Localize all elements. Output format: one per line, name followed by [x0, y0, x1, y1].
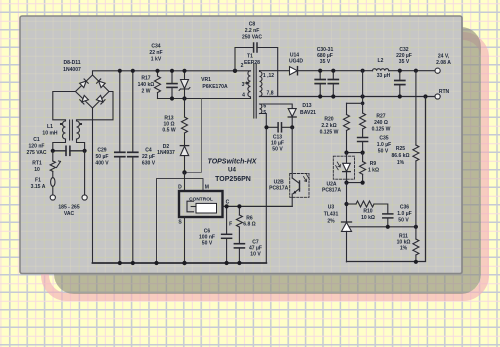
svg-text:10 mH: 10 mH: [42, 131, 58, 137]
svg-text:33 µH: 33 µH: [377, 73, 391, 79]
node: C34 bottom: [170, 96, 174, 100]
wire: L1 right bottom to line: [77, 139, 85, 151]
svg-text:C1: C1: [33, 137, 40, 143]
svg-text:L2: L2: [378, 58, 384, 64]
transformer T1 core: [254, 64, 256, 118]
opto U2B phototransistor: [290, 174, 310, 207]
svg-text:M: M: [205, 185, 209, 191]
svg-text:22 nF: 22 nF: [149, 50, 162, 56]
svg-text:1%: 1%: [397, 160, 405, 166]
inductor L2: [373, 69, 389, 71]
svg-text:86.6 kΩ: 86.6 kΩ: [391, 153, 409, 159]
capacitor C7: [234, 244, 244, 263]
svg-text:1 kΩ: 1 kΩ: [368, 168, 379, 174]
svg-text:3.15 A: 3.15 A: [31, 184, 46, 190]
diode D2: [180, 146, 188, 173]
svg-text:CONTROL: CONTROL: [189, 197, 213, 203]
svg-text:F1: F1: [35, 178, 41, 184]
svg-text:250 VAC: 250 VAC: [242, 35, 262, 41]
wire: 24V output rail: [298, 70, 435, 72]
terminal: AC input right: [82, 195, 87, 200]
svg-text:U4: U4: [228, 166, 236, 173]
svg-text:1 kV: 1 kV: [151, 57, 162, 63]
wire: M pin tie to source: [157, 179, 204, 263]
svg-text:2: 2: [241, 63, 244, 69]
transformer T1 bias winding: [260, 104, 262, 114]
svg-text:F: F: [229, 222, 232, 228]
capacitor C35: [358, 138, 368, 153]
terminal: 24V output: [435, 68, 440, 73]
svg-text:C35: C35: [379, 136, 388, 142]
svg-text:1.0 µF: 1.0 µF: [397, 211, 411, 217]
svg-text:120 nF: 120 nF: [29, 144, 45, 150]
svg-text:50 V: 50 V: [202, 241, 213, 247]
wire: R20 top stub: [347, 102, 363, 104]
inductor L1 common-mode choke: [60, 120, 82, 140]
wire: down to TL431: [346, 183, 348, 222]
node: C6 top: [225, 204, 229, 208]
node: cathode row right: [361, 181, 365, 185]
svg-text:10: 10: [34, 167, 40, 173]
capacitor C1: [53, 146, 85, 155]
wire: fb tap on 24V rail down: [362, 71, 364, 104]
svg-text:50 V: 50 V: [272, 147, 283, 153]
wire: LED anode row: [347, 152, 363, 154]
svg-text:0.125 W: 0.125 W: [320, 130, 339, 136]
svg-text:240 Ω: 240 Ω: [374, 120, 388, 126]
svg-text:50 µF: 50 µF: [95, 154, 108, 160]
svg-text:50 V: 50 V: [378, 149, 389, 155]
svg-text:TL431: TL431: [324, 212, 339, 218]
svg-text:U3: U3: [328, 205, 335, 211]
node: cathode row left: [344, 181, 348, 185]
svg-text:6.8 Ω: 6.8 Ω: [243, 222, 255, 228]
svg-text:C29: C29: [97, 148, 106, 154]
resistor R25: [413, 71, 419, 227]
svg-text:RTN: RTN: [439, 89, 450, 95]
node: rail junctions: [118, 69, 242, 266]
capacitor C34: [167, 71, 177, 99]
svg-text:5: 5: [263, 110, 266, 116]
resistor R6: [236, 206, 242, 243]
svg-text:D13: D13: [302, 103, 311, 109]
svg-text:10 V: 10 V: [250, 252, 261, 258]
wire: TL431 ref row: [349, 226, 416, 228]
node: R6 top: [237, 204, 241, 208]
svg-text:630 V: 630 V: [142, 161, 156, 167]
svg-text:2.2 kΩ: 2.2 kΩ: [321, 123, 336, 129]
svg-text:140 kΩ: 140 kΩ: [138, 82, 155, 88]
svg-text:BAV21: BAV21: [300, 110, 316, 116]
opto U2A LED: [333, 153, 354, 183]
thermistor RT1: [50, 151, 60, 178]
svg-text:TOPSwitch-HX: TOPSwitch-HX: [208, 158, 258, 165]
svg-text:R10: R10: [363, 209, 372, 215]
diode D13: [288, 109, 296, 128]
svg-text:400 V: 400 V: [95, 161, 109, 167]
wire: bridge right AC lead: [77, 92, 114, 122]
node: C13 right / D13 cathode: [290, 125, 294, 129]
zener VR1: [179, 71, 190, 99]
resistor R9: [360, 153, 366, 183]
node: output rail junctions: [318, 69, 428, 99]
svg-text:D8-D11: D8-D11: [63, 60, 80, 66]
svg-text:35 V: 35 V: [399, 59, 410, 65]
svg-text:C: C: [226, 200, 230, 206]
thin wire: drain link to pin 4: [185, 99, 202, 173]
svg-text:RT1: RT1: [32, 161, 42, 167]
wire: LED cathode row: [347, 182, 363, 184]
svg-text:0.5 W: 0.5 W: [162, 128, 175, 134]
wire: fb bottom row to RTN: [347, 97, 426, 262]
node: C13 left: [264, 125, 268, 129]
capacitor C32: [395, 71, 405, 97]
svg-text:24 V,: 24 V,: [438, 54, 450, 60]
node: C1 left junction: [51, 149, 55, 153]
svg-text:R20: R20: [324, 117, 333, 123]
svg-text:C8: C8: [249, 22, 256, 28]
svg-text:1N4937: 1N4937: [157, 150, 175, 156]
transformer T1 secondary winding: [260, 71, 263, 97]
faint grid showing through panel: [21, 17, 461, 273]
svg-text:1.0 µF: 1.0 µF: [377, 142, 391, 148]
wire: C pin to opto: [223, 205, 293, 207]
capacitor C29: [115, 71, 125, 263]
svg-text:10 kΩ: 10 kΩ: [361, 215, 375, 221]
svg-text:C34: C34: [151, 44, 160, 50]
svg-text:T1: T1: [247, 54, 253, 60]
pink drop shadow: [45, 36, 485, 297]
wire: S pin to ground rail: [184, 217, 186, 263]
wire: secondary top to U14: [260, 70, 290, 72]
resistor R10: [347, 201, 388, 214]
wire: bridge negative to bottom rail: [92, 108, 94, 263]
terminal: AC input left: [50, 195, 55, 200]
capacitor C8: [235, 43, 278, 97]
pin 3 arrow: [245, 82, 249, 84]
node: drain: [182, 170, 186, 174]
node: anode row left: [344, 151, 348, 155]
svg-text:2 W: 2 W: [142, 89, 151, 95]
svg-text:R9: R9: [370, 161, 377, 167]
node: divider mid: [414, 225, 418, 229]
wire: primary ground bottom rail: [93, 262, 267, 264]
node: C36 bottom: [386, 225, 390, 229]
svg-text:35 V: 35 V: [320, 59, 331, 65]
schematic panel: [20, 16, 462, 274]
wire: bridge left AC lead: [53, 92, 76, 122]
wire: D13 node down to opto collector: [291, 127, 293, 178]
fuse F1: [51, 178, 55, 195]
capacitor C13: [267, 123, 293, 132]
svg-text:50 V: 50 V: [398, 218, 409, 224]
wire: HV+ top rail: [93, 71, 251, 75]
svg-text:7,8: 7,8: [266, 91, 273, 97]
wire: right AC line down: [84, 151, 86, 195]
transformer T1 primary winding: [248, 71, 251, 99]
wire: L1 left bottom to line: [53, 139, 66, 151]
svg-text:PC817A: PC817A: [322, 188, 341, 194]
node: R11 bottom: [414, 260, 418, 264]
wire: secondary return rail RTN: [260, 96, 435, 98]
svg-text:2.08 A: 2.08 A: [436, 60, 451, 66]
wire: bias pin6 to D13: [260, 104, 293, 109]
capacitor C31: [328, 71, 338, 97]
svg-text:2%: 2%: [327, 219, 335, 225]
op-amp U4 TOPSwitch block: [179, 191, 223, 217]
svg-text:PC817A: PC817A: [269, 186, 288, 192]
svg-text:4: 4: [242, 93, 245, 99]
node: anode row right: [361, 151, 365, 155]
resistor R11: [413, 227, 419, 262]
svg-text:UG4D: UG4D: [289, 59, 303, 65]
svg-text:VR1: VR1: [201, 77, 211, 83]
svg-text:C36: C36: [400, 205, 409, 211]
svg-text:EER28: EER28: [244, 60, 260, 66]
svg-text:22 µF: 22 µF: [142, 154, 155, 160]
svg-text:C4: C4: [145, 148, 152, 154]
node: VR1 bottom: [182, 96, 186, 100]
capacitor C6: [222, 206, 232, 263]
wire: D pin: [184, 172, 186, 191]
gray drop shadow: [54, 27, 481, 294]
svg-text:2.2 nF: 2.2 nF: [245, 28, 260, 34]
wire: clamp bottom row to pin 4: [158, 98, 251, 100]
terminal: RTN: [435, 94, 440, 99]
capacitor C4: [128, 71, 138, 263]
node: fb tap crossing: [361, 102, 365, 106]
diode U14: [290, 67, 298, 75]
svg-text:R25: R25: [396, 146, 405, 152]
node: R10 takeoff: [344, 202, 348, 206]
capacitor C30: [315, 71, 325, 97]
resistor R27: [360, 103, 366, 137]
shunt U3 TL431: [342, 222, 352, 262]
resistor R20: [344, 103, 350, 152]
svg-text:TOP256PN: TOP256PN: [215, 176, 251, 183]
svg-text:275 VAC: 275 VAC: [26, 150, 46, 156]
svg-text:6: 6: [263, 104, 266, 110]
svg-text:L1: L1: [47, 124, 53, 130]
svg-text:1 ,12: 1 ,12: [263, 73, 274, 79]
svg-text:R17: R17: [141, 76, 150, 82]
svg-text:D: D: [178, 185, 182, 191]
resistor R13: [182, 99, 188, 146]
node: C1 right junction: [83, 149, 87, 153]
svg-text:1N4007: 1N4007: [63, 67, 81, 73]
bridge D8-D11: [76, 75, 110, 108]
svg-text:1%: 1%: [400, 246, 408, 252]
capacitor C36: [383, 214, 393, 227]
svg-text:185 - 265: 185 - 265: [58, 205, 80, 211]
resistor R17: [155, 71, 161, 99]
svg-text:3: 3: [242, 82, 245, 88]
svg-text:P6KE170A: P6KE170A: [202, 84, 228, 90]
svg-text:VAC: VAC: [64, 211, 75, 217]
svg-text:0.125 W: 0.125 W: [372, 127, 391, 133]
svg-text:R27: R27: [376, 114, 385, 120]
